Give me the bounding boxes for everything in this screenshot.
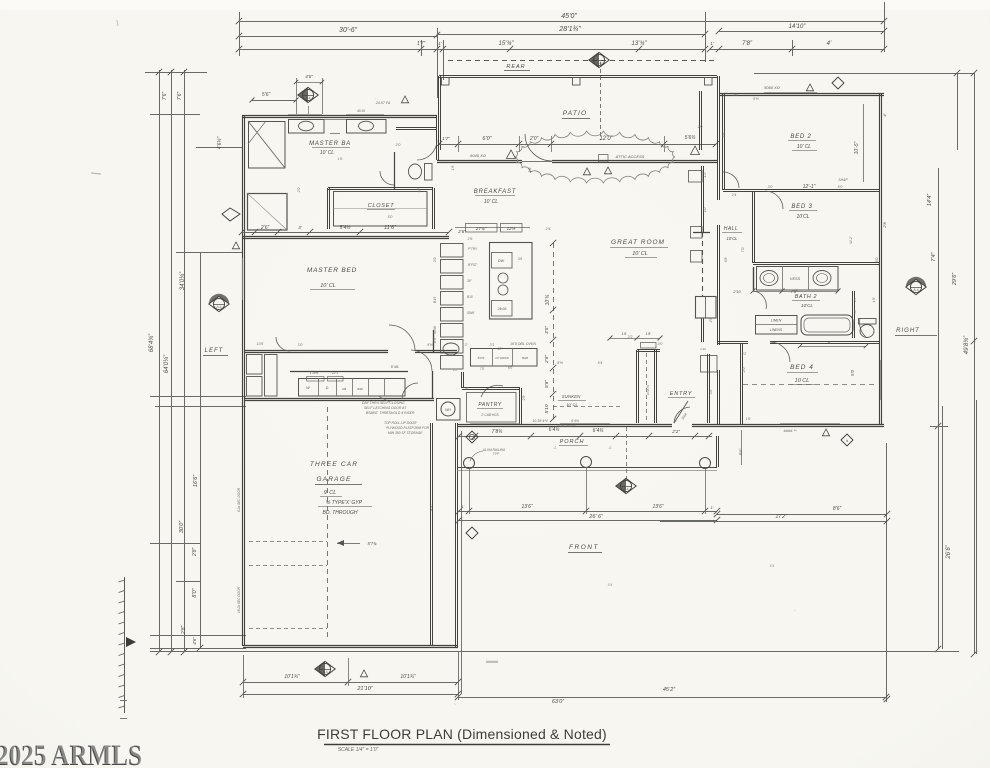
svg-text:~: ~ bbox=[454, 702, 457, 708]
svg-text:10’6: 10’6 bbox=[257, 342, 264, 346]
svg-text:28’1¾”: 28’1¾” bbox=[558, 26, 581, 33]
svg-text:2’0: 2’0 bbox=[742, 368, 746, 374]
svg-text:PORCH: PORCH bbox=[560, 439, 585, 445]
svg-text:PANTRY: PANTRY bbox=[478, 402, 501, 408]
svg-text:2’4: 2’4 bbox=[545, 227, 551, 231]
svg-text:5’4: 5’4 bbox=[770, 564, 775, 568]
svg-text:34’0¼”: 34’0¼” bbox=[180, 271, 186, 290]
svg-text:3’: 3’ bbox=[465, 343, 468, 347]
svg-text:12’-1”: 12’-1” bbox=[803, 184, 816, 190]
svg-text:10’CL: 10’CL bbox=[727, 236, 739, 241]
svg-text:14’10”: 14’10” bbox=[789, 24, 807, 30]
svg-text:SINK: SINK bbox=[433, 325, 437, 334]
svg-text:△: △ bbox=[608, 445, 612, 449]
svg-text:5’4: 5’4 bbox=[598, 361, 603, 365]
svg-text:7’4”: 7’4” bbox=[931, 251, 937, 261]
svg-text:2’4: 2’4 bbox=[731, 193, 737, 197]
svg-text:10.88 ## 4*4: 10.88 ## 4*4 bbox=[556, 424, 575, 428]
svg-text:5050 XO: 5050 XO bbox=[764, 85, 780, 90]
svg-text:BED 4: BED 4 bbox=[790, 364, 814, 371]
svg-text:DW: DW bbox=[498, 259, 505, 263]
svg-text:CLOSET: CLOSET bbox=[368, 203, 395, 209]
svg-text:5’8: 5’8 bbox=[853, 310, 857, 314]
svg-text:2’6”: 2’6” bbox=[260, 225, 270, 231]
svg-text:VESS: VESS bbox=[790, 277, 801, 281]
svg-text:18”: 18” bbox=[417, 187, 421, 193]
svg-text:10 CL: 10 CL bbox=[795, 378, 810, 384]
svg-text:5’0: 5’0 bbox=[838, 185, 843, 189]
svg-text:1’: 1’ bbox=[710, 505, 713, 510]
svg-text:LEFT: LEFT bbox=[205, 348, 224, 354]
svg-text:BATH 2: BATH 2 bbox=[795, 294, 817, 300]
svg-text:13’6”: 13’6” bbox=[521, 504, 532, 510]
svg-text:2025 ARMLS: 2025 ARMLS bbox=[0, 739, 143, 768]
svg-text:SELF LATCHING DOOR AT: SELF LATCHING DOOR AT bbox=[364, 406, 407, 410]
svg-text:A-4: A-4 bbox=[306, 96, 311, 100]
svg-text:10’1¾”: 10’1¾” bbox=[284, 674, 300, 680]
svg-text:FIRST FLOOR PLAN (Dimensioned: FIRST FLOOR PLAN (Dimensioned & Noted) bbox=[317, 726, 607, 742]
svg-text:DAY THRU SELF CLOSING: DAY THRU SELF CLOSING bbox=[362, 401, 405, 405]
svg-text:5’½: 5’½ bbox=[753, 97, 759, 101]
svg-text:A-4: A-4 bbox=[323, 670, 328, 674]
svg-text:8’ ML: 8’ ML bbox=[391, 365, 400, 369]
svg-text:⅝ TYPE’X’ GYP: ⅝ TYPE’X’ GYP bbox=[326, 500, 363, 506]
svg-text:A-4: A-4 bbox=[217, 305, 222, 309]
svg-text:TYP: TYP bbox=[493, 452, 500, 456]
svg-text:30’-6”: 30’-6” bbox=[339, 27, 358, 34]
svg-text:10’ CL: 10’ CL bbox=[566, 402, 577, 407]
svg-text:30’0”: 30’0” bbox=[179, 520, 185, 533]
svg-text:2’8”: 2’8” bbox=[192, 547, 198, 557]
svg-text:3’0: 3’0 bbox=[433, 258, 437, 263]
svg-text:13’¾”: 13’¾” bbox=[631, 41, 647, 47]
svg-text:1’7”: 1’7” bbox=[442, 136, 450, 141]
svg-text:6’8: 6’8 bbox=[724, 258, 728, 263]
svg-text:TOP ROLL-UP DOOR: TOP ROLL-UP DOOR bbox=[384, 421, 417, 425]
svg-text:40.36: 40.36 bbox=[357, 109, 365, 113]
svg-text:2’6: 2’6 bbox=[467, 237, 473, 241]
svg-text:MIN 350 SF STORAGE: MIN 350 SF STORAGE bbox=[388, 431, 423, 435]
svg-text:26’6”: 26’6” bbox=[946, 544, 952, 559]
svg-text:10’ CL: 10’ CL bbox=[320, 283, 336, 289]
svg-text:8-0x SEC DOOR: 8-0x SEC DOOR bbox=[237, 487, 241, 512]
svg-text:4’0: 4’0 bbox=[703, 208, 707, 213]
svg-text:MASTER BA: MASTER BA bbox=[309, 141, 351, 147]
svg-text:RIGHT: RIGHT bbox=[896, 328, 920, 334]
svg-text:7’6”: 7’6” bbox=[177, 91, 183, 100]
svg-text:B15: B15 bbox=[467, 295, 473, 299]
svg-text:PLYWOOD PLATFORM FOR: PLYWOOD PLATFORM FOR bbox=[386, 426, 430, 430]
svg-text:GREAT ROOM: GREAT ROOM bbox=[611, 239, 665, 246]
svg-text:2’8: 2’8 bbox=[853, 298, 857, 303]
svg-text:16’6”: 16’6” bbox=[193, 474, 199, 487]
svg-text:14’4”: 14’4” bbox=[927, 193, 933, 206]
svg-text:ATTIC ACCESS: ATTIC ACCESS bbox=[615, 154, 645, 159]
svg-text:13’6”: 13’6” bbox=[652, 504, 663, 510]
svg-text:2’0: 2’0 bbox=[297, 188, 301, 194]
svg-text:6’0”: 6’0” bbox=[482, 136, 492, 142]
svg-text:6’0: 6’0 bbox=[875, 258, 879, 263]
svg-text:P’TRY: P’TRY bbox=[468, 247, 478, 251]
svg-text:4’: 4’ bbox=[882, 113, 887, 116]
svg-text:ENTRY: ENTRY bbox=[670, 391, 692, 397]
svg-text:30”: 30” bbox=[497, 347, 503, 351]
svg-text:5’6”: 5’6” bbox=[262, 92, 271, 98]
svg-text:2’2”: 2’2” bbox=[671, 429, 680, 434]
svg-text:2’2: 2’2 bbox=[741, 352, 747, 356]
svg-text:6’4¾: 6’4¾ bbox=[593, 428, 604, 434]
svg-text:MASTER BED: MASTER BED bbox=[307, 267, 357, 274]
svg-text:5’6: 5’6 bbox=[722, 133, 726, 138]
svg-text:10’¾: 10’¾ bbox=[545, 295, 551, 306]
svg-text:3’0: 3’0 bbox=[658, 342, 663, 346]
svg-text:A-4: A-4 bbox=[624, 487, 629, 491]
svg-text:6’0: 6’0 bbox=[508, 366, 512, 370]
svg-text:2’0”: 2’0” bbox=[529, 136, 539, 142]
svg-text:2’8”: 2’8” bbox=[544, 355, 550, 364]
svg-text:8’0”: 8’0” bbox=[192, 587, 198, 597]
svg-text:1’6: 1’6 bbox=[451, 166, 455, 171]
svg-text:10’ CL: 10’ CL bbox=[632, 251, 648, 257]
svg-text:29’6”: 29’6” bbox=[952, 272, 958, 286]
svg-text:B’PS: B’PS bbox=[478, 356, 485, 360]
svg-text:7’0: 7’0 bbox=[741, 248, 745, 253]
svg-text:3’0: 3’0 bbox=[298, 343, 303, 347]
svg-text:LINENS: LINENS bbox=[770, 328, 783, 332]
svg-text:5’8”: 5’8” bbox=[544, 380, 550, 388]
svg-text:1’6: 1’6 bbox=[622, 332, 627, 336]
svg-text:21’10”: 21’10” bbox=[356, 686, 373, 692]
svg-text:#### **: #### ** bbox=[783, 428, 797, 433]
svg-text:23” DRWR: 23” DRWR bbox=[494, 356, 508, 360]
svg-text:6’4¾: 6’4¾ bbox=[571, 419, 579, 423]
svg-text:5’7¾: 5’7¾ bbox=[367, 541, 377, 546]
svg-text:SH&P: SH&P bbox=[838, 178, 848, 182]
svg-text:4’: 4’ bbox=[827, 41, 832, 47]
svg-text:5’10: 5’10 bbox=[544, 404, 550, 413]
svg-text:64’0¼”: 64’0¼” bbox=[164, 354, 170, 373]
svg-text:W-2’: W-2’ bbox=[849, 236, 853, 244]
svg-text:WH: WH bbox=[445, 408, 451, 412]
svg-text:10’1¾”: 10’1¾” bbox=[400, 674, 416, 680]
svg-text:2’8: 2’8 bbox=[522, 396, 526, 402]
svg-text:45’0”: 45’0” bbox=[561, 13, 577, 20]
svg-text:PATIO: PATIO bbox=[563, 110, 588, 117]
svg-text:LINEN: LINEN bbox=[771, 319, 782, 323]
svg-text:3’6: 3’6 bbox=[733, 93, 738, 97]
svg-text:4’6”: 4’6” bbox=[192, 637, 197, 645]
svg-text:2’2: 2’2 bbox=[627, 335, 633, 339]
svg-text:1’6: 1’6 bbox=[338, 157, 343, 161]
svg-text:24x36: 24x36 bbox=[497, 307, 507, 311]
svg-text:2’ CAB HGS: 2’ CAB HGS bbox=[480, 413, 499, 417]
svg-text:SCALE 1/4” = 1’0”: SCALE 1/4” = 1’0” bbox=[338, 747, 379, 753]
svg-text:2’8: 2’8 bbox=[882, 222, 887, 229]
svg-text:W: W bbox=[306, 386, 310, 390]
svg-text:1’8: 1’8 bbox=[646, 332, 651, 336]
svg-text:A-4: A-4 bbox=[914, 288, 919, 292]
svg-text:B&B: B&B bbox=[522, 356, 528, 360]
svg-text:7’8¾: 7’8¾ bbox=[492, 429, 503, 435]
svg-text:12⅛: 12⅛ bbox=[507, 226, 516, 231]
svg-text:3’0: 3’0 bbox=[768, 185, 773, 189]
svg-text:10’CL: 10’CL bbox=[801, 303, 813, 308]
svg-text:49’8¾”: 49’8¾” bbox=[964, 335, 970, 354]
svg-text:BED 3: BED 3 bbox=[791, 204, 812, 210]
svg-text:2’2: 2’2 bbox=[452, 368, 457, 372]
svg-text:10’-5”: 10’-5” bbox=[854, 141, 860, 154]
svg-text:B’FST: B’FST bbox=[468, 263, 478, 267]
svg-text:4’6”: 4’6” bbox=[305, 74, 313, 79]
svg-text:HALL: HALL bbox=[724, 226, 739, 232]
svg-text:1’6: 1’6 bbox=[528, 167, 532, 173]
svg-text:11’6”: 11’6” bbox=[384, 225, 397, 231]
svg-text:5’0: 5’0 bbox=[850, 370, 855, 377]
svg-text:2’8”: 2’8” bbox=[181, 625, 187, 635]
svg-text:7’6”: 7’6” bbox=[162, 91, 168, 100]
svg-text:2’8: 2’8 bbox=[709, 318, 713, 324]
svg-text:BSMNT. THRESHOLD 4 RISER: BSMNT. THRESHOLD 4 RISER bbox=[366, 411, 415, 415]
svg-text:24-57 FA: 24-57 FA bbox=[375, 101, 391, 105]
svg-text:1’2: 1’2 bbox=[703, 173, 707, 178]
svg-text:12’0”: 12’0” bbox=[599, 136, 613, 142]
svg-text:10’ CL: 10’ CL bbox=[484, 199, 498, 205]
svg-text:10’ CL: 10’ CL bbox=[320, 150, 334, 156]
svg-text:9’ CL: 9’ CL bbox=[324, 490, 337, 496]
svg-text:26’ 6”: 26’ 6” bbox=[588, 514, 604, 520]
svg-text:10’ CL: 10’ CL bbox=[797, 144, 811, 150]
svg-text:GARAGE: GARAGE bbox=[316, 476, 351, 483]
svg-text:16’8 DBL OVEN: 16’8 DBL OVEN bbox=[510, 342, 536, 346]
svg-text:8’6”: 8’6” bbox=[833, 506, 842, 512]
svg-text:7’0: 7’0 bbox=[480, 367, 484, 371]
svg-text:SUNKEN: SUNKEN bbox=[562, 394, 582, 399]
svg-text:17’2”: 17’2” bbox=[775, 514, 786, 520]
svg-text:BREAKFAST: BREAKFAST bbox=[474, 189, 517, 195]
svg-text:2’10: 2’10 bbox=[732, 289, 741, 294]
svg-text:D: D bbox=[326, 386, 329, 390]
svg-text:2’6”: 2’6” bbox=[457, 229, 466, 234]
svg-text:5’4: 5’4 bbox=[608, 583, 613, 587]
svg-text:UB: UB bbox=[342, 387, 346, 391]
svg-text:1’6: 1’6 bbox=[746, 417, 751, 421]
svg-text:7’8”: 7’8” bbox=[742, 41, 753, 47]
svg-text:16-0x SEC DOOR: 16-0x SEC DOOR bbox=[237, 586, 241, 613]
svg-text:45’2”: 45’2” bbox=[663, 687, 676, 693]
svg-text:REAR: REAR bbox=[506, 64, 525, 70]
svg-text:27¾”: 27¾” bbox=[475, 226, 487, 231]
svg-text:FRONT: FRONT bbox=[569, 544, 599, 551]
svg-text:BED 2: BED 2 bbox=[790, 134, 811, 140]
svg-text:5’4½: 5’4½ bbox=[340, 224, 352, 231]
svg-text:15’¾”: 15’¾” bbox=[498, 41, 514, 47]
svg-text:2’0: 2’0 bbox=[697, 125, 703, 129]
svg-text:10.38 4*4: 10.38 4*4 bbox=[532, 419, 547, 423]
svg-text:4’6¼”: 4’6¼” bbox=[217, 136, 223, 149]
svg-text:8’: 8’ bbox=[827, 340, 830, 345]
svg-text:1’6: 1’6 bbox=[872, 298, 876, 303]
svg-text:4’3”: 4’3” bbox=[429, 504, 434, 511]
svg-text:9’½: 9’½ bbox=[427, 343, 433, 347]
svg-text:COATS: COATS bbox=[646, 385, 650, 395]
svg-text:5’0: 5’0 bbox=[388, 215, 393, 219]
svg-text:10’CL: 10’CL bbox=[796, 214, 809, 220]
svg-text:6040 XO: 6040 XO bbox=[470, 153, 486, 158]
svg-text:LIN: LIN bbox=[709, 389, 713, 395]
svg-text:2’0: 2’0 bbox=[395, 143, 401, 147]
svg-text:63’0”: 63’0” bbox=[552, 699, 565, 705]
svg-text:THREE CAR: THREE CAR bbox=[310, 461, 358, 468]
svg-text:68’4¾”: 68’4¾” bbox=[149, 333, 155, 352]
svg-text:5’0”: 5’0” bbox=[738, 448, 743, 455]
svg-text:5’6¾: 5’6¾ bbox=[685, 135, 696, 141]
svg-text:8’½: 8’½ bbox=[557, 361, 563, 365]
svg-text:3’6: 3’6 bbox=[518, 257, 522, 261]
svg-text:SINK: SINK bbox=[467, 311, 475, 315]
svg-text:3’5”: 3’5” bbox=[544, 326, 550, 334]
svg-text:△: △ bbox=[553, 445, 557, 449]
svg-text:B15: B15 bbox=[433, 297, 437, 303]
svg-text:1’10: 1’10 bbox=[700, 347, 706, 351]
svg-text:######: ###### bbox=[486, 660, 498, 664]
svg-text:3’1: 3’1 bbox=[490, 343, 495, 347]
svg-text:B30: B30 bbox=[357, 387, 363, 391]
